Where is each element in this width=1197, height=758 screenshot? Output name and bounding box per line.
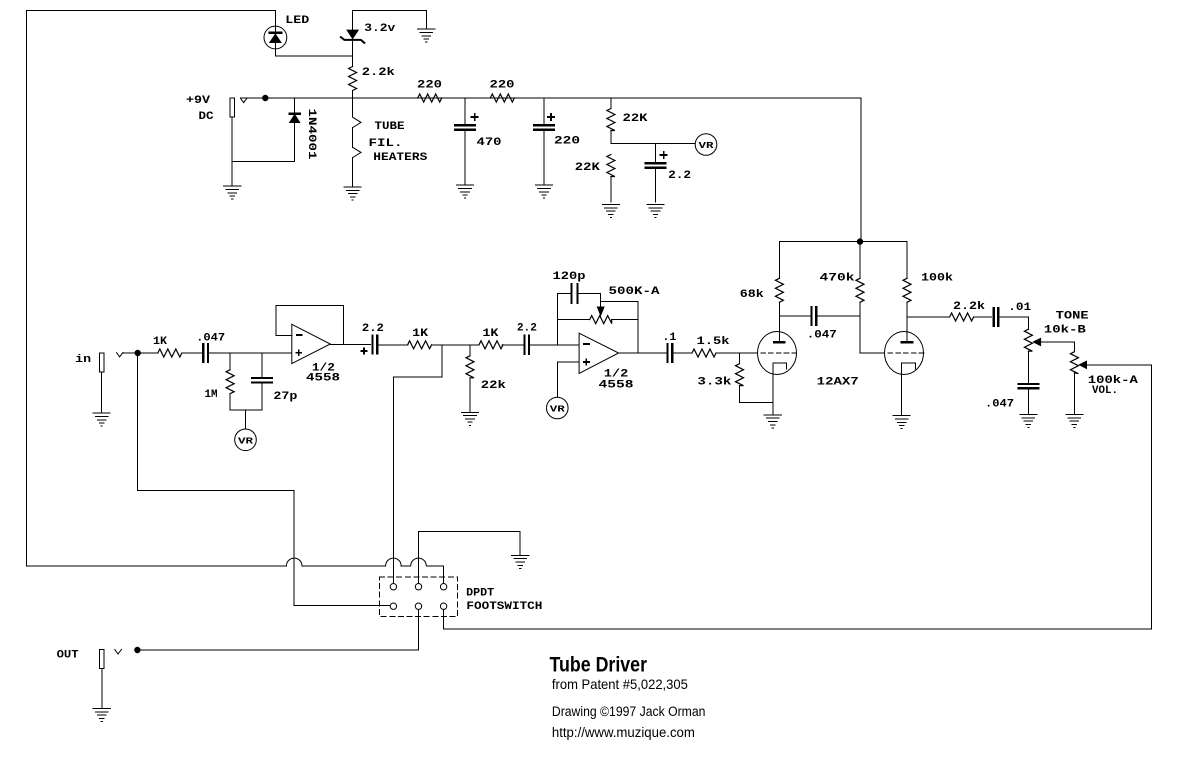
svg-text:2.2: 2.2 — [517, 323, 537, 335]
ground cathode2 — [893, 416, 910, 429]
svg-text:.1: .1 — [662, 332, 676, 344]
svg-text:120p: 120p — [553, 271, 586, 283]
wire cap to 1K — [377, 344, 408, 346]
wire output bottom run — [444, 628, 1152, 630]
LED indicator — [264, 26, 287, 49]
resistor 1.5k grid stopper — [692, 349, 716, 357]
svg-text:.047: .047 — [807, 330, 837, 342]
wire 1K to node — [432, 344, 479, 346]
wire tone bottom to cap — [1027, 351, 1029, 384]
switch pin 3 — [440, 584, 446, 590]
pot VOL wiper arrow — [1079, 361, 1086, 368]
resistor 22K lower divider — [607, 155, 615, 177]
wire top-left bypass rail corner — [27, 10, 276, 12]
svg-text:220: 220 — [417, 80, 442, 92]
wire 2.2k to rail — [352, 91, 354, 99]
capacitor 27p — [261, 353, 263, 378]
svg-text:1M: 1M — [205, 389, 218, 401]
pot TONE wiper arrow — [1033, 338, 1040, 345]
node input junction — [135, 350, 140, 355]
switch pin 4 — [390, 603, 396, 609]
capacitor 2.2 VR filter — [655, 144, 657, 164]
svg-text:.01: .01 — [1008, 302, 1031, 314]
resistor 68k plate1 — [778, 242, 780, 279]
op-amp U1A 1/2 4558 — [292, 324, 331, 363]
wire input to switch — [138, 353, 390, 606]
pot VOL 100k-A body — [1070, 352, 1078, 374]
svg-text:12AX7: 12AX7 — [817, 377, 859, 389]
wire grid2 — [860, 352, 885, 354]
svg-text:HEATERS: HEATERS — [373, 152, 427, 164]
resistor 470k grid leak — [859, 242, 861, 279]
node power input junction — [263, 95, 268, 100]
ground cap 2.2 — [647, 205, 664, 218]
wire 1M 27p bottom — [230, 409, 262, 411]
op-amp U1B 1/2 4558 — [579, 333, 619, 373]
capacitor 2.2 interstage — [372, 336, 374, 354]
wire rail to plate supply — [860, 98, 862, 242]
resistor 1K stage2 a — [408, 341, 432, 349]
switch pin 2 — [415, 584, 421, 590]
label + 2.2 — [661, 152, 667, 158]
svg-text:1K: 1K — [153, 336, 167, 348]
svg-text:27p: 27p — [273, 391, 297, 403]
resistor 1K input — [158, 349, 182, 357]
wire output down right side — [1150, 365, 1152, 629]
svg-text:.047: .047 — [196, 332, 225, 344]
svg-text:FIL.: FIL. — [369, 138, 403, 150]
wire opamp1 feedback loop — [276, 305, 343, 344]
svg-text:2.2k: 2.2k — [953, 301, 985, 313]
label + 2.2 interstage — [361, 348, 367, 354]
wire 1K to cap2.2 — [502, 344, 524, 346]
wire input line — [123, 352, 158, 354]
wire pot right leg to output — [637, 301, 639, 353]
ground 22K divider — [602, 205, 619, 218]
svg-text:VOL.: VOL. — [1092, 385, 1118, 397]
label + 220 — [548, 114, 554, 120]
ground top-right — [425, 11, 427, 30]
resistor 1M bias — [229, 353, 231, 370]
ground 22k shunt — [461, 412, 478, 425]
pot TONE 10k-B body — [1024, 329, 1032, 351]
svg-text:22K: 22K — [623, 113, 648, 125]
svg-text:http://www.muzique.com: http://www.muzique.com — [552, 725, 695, 740]
svg-text:4558: 4558 — [599, 380, 635, 392]
svg-text:3.3k: 3.3k — [697, 377, 732, 389]
wire 2.2k to .01 — [974, 316, 992, 318]
svg-text:in: in — [75, 354, 91, 366]
svg-text:3.2v: 3.2v — [364, 23, 395, 35]
+9V DC power rail — [241, 97, 862, 99]
svg-text:from Patent #5,022,305: from Patent #5,022,305 — [552, 676, 688, 692]
switch pin 5 — [415, 603, 421, 609]
svg-text:VR: VR — [238, 436, 253, 447]
wire VR node — [611, 143, 695, 145]
wire pot left leg — [556, 294, 558, 345]
capacitor .047 input — [202, 344, 204, 362]
zener diode D1 3.2v — [352, 11, 354, 31]
svg-text:1N4001: 1N4001 — [305, 109, 317, 161]
wire 3.3k to cathode — [740, 401, 773, 403]
switch pin 1 — [390, 584, 396, 590]
resistor 22k shunt — [469, 345, 471, 356]
svg-text:68k: 68k — [740, 289, 764, 301]
wire plate2 output tap — [907, 316, 950, 318]
ground vol pot — [1066, 415, 1083, 428]
resistor 3.3k cathode — [739, 353, 741, 364]
svg-text:10k-B: 10k-B — [1044, 325, 1086, 337]
capacitor 470 filter — [464, 98, 466, 125]
svg-text:DPDT: DPDT — [466, 588, 494, 600]
node output junction — [135, 647, 140, 652]
svg-text:2.2k: 2.2k — [362, 67, 395, 79]
wire switch send vertical — [392, 377, 394, 583]
rail plate supply — [779, 241, 907, 243]
node feedback tap — [556, 294, 558, 345]
svg-text:Drawing ©1997 Jack Orman: Drawing ©1997 Jack Orman — [552, 704, 706, 719]
triode V1A 12AX7 — [758, 332, 797, 375]
switch DPDT box — [380, 577, 458, 617]
resistor 100k plate2 — [906, 242, 908, 279]
wire 120p to wiper — [601, 294, 638, 302]
svg-text:TUBE: TUBE — [375, 121, 405, 133]
diode 1N4001 — [294, 98, 296, 113]
wire zener top rail — [353, 10, 427, 12]
svg-text:LED: LED — [285, 15, 309, 27]
pot 500K-A body — [557, 319, 589, 321]
wire pin5 to output jack — [137, 609, 418, 650]
svg-text:22k: 22k — [481, 380, 506, 392]
ground cathode1 — [764, 415, 781, 428]
svg-text:22K: 22K — [575, 162, 600, 174]
resistor 2.2k LED dropper — [349, 67, 357, 91]
svg-text:OUT: OUT — [57, 650, 79, 662]
wire stub to VR1 — [245, 410, 247, 429]
triode V1B 12AX7 — [885, 332, 924, 375]
capacitor 2.2 stage2 — [523, 336, 525, 354]
svg-text:Tube Driver: Tube Driver — [550, 652, 648, 676]
label + 470 — [472, 114, 478, 120]
wire pin6 to output run — [443, 609, 445, 629]
capacitor .047 tone — [1018, 383, 1038, 385]
svg-text:500K-A: 500K-A — [609, 286, 661, 298]
ground input jack — [93, 413, 110, 426]
resistor 22K upper divider — [610, 98, 612, 109]
svg-text:.047: .047 — [985, 398, 1014, 410]
capacitor .047 interstage tube — [779, 315, 811, 317]
wire cap.1 to 1.5k — [673, 352, 692, 354]
svg-text:2.2: 2.2 — [362, 323, 384, 335]
node VR1 bias — [235, 429, 257, 451]
jack input — [100, 353, 104, 372]
svg-text:4558: 4558 — [306, 373, 341, 385]
svg-text:DC: DC — [199, 111, 214, 123]
wire opamp2 output — [619, 352, 667, 354]
svg-text:VR: VR — [699, 140, 714, 151]
svg-text:220: 220 — [554, 136, 580, 148]
jack output — [100, 650, 104, 669]
wire 1.5k to grid — [716, 352, 758, 354]
wire 1N4001 anode to jack sleeve — [232, 160, 295, 162]
switch pin 6 — [440, 603, 446, 609]
wire ground to switch pin2 — [419, 532, 521, 584]
svg-text:470k: 470k — [820, 273, 856, 285]
svg-text:470: 470 — [477, 137, 502, 149]
ground cap 470 — [456, 185, 473, 198]
svg-text:100k: 100k — [921, 272, 953, 284]
capacitor 220 filter — [543, 98, 545, 125]
wire cathode1 to ground — [772, 402, 774, 414]
wire .01 to tone — [999, 317, 1029, 329]
node switch send — [441, 345, 443, 377]
wire opamp1 output — [330, 344, 370, 346]
svg-text:TONE: TONE — [1056, 311, 1089, 323]
ground cap 220 — [535, 185, 552, 198]
wire opamp2 plus input — [557, 362, 579, 397]
pot 500K-A wiper arrow — [600, 301, 602, 307]
ground output jack — [93, 709, 110, 722]
wire tone wiper to vol top — [1073, 342, 1075, 352]
ground switch — [512, 555, 529, 568]
resistor 1K stage2 b — [479, 341, 503, 349]
svg-text:1K: 1K — [482, 328, 498, 340]
resistor 220 second — [490, 94, 514, 102]
svg-text:FOOTSWITCH: FOOTSWITCH — [466, 601, 542, 613]
capacitor .01 output — [993, 308, 995, 326]
svg-text:2.2: 2.2 — [668, 170, 691, 182]
wire cap to opamp1 — [208, 352, 292, 354]
node VR supply — [695, 134, 717, 156]
resistor 220 first — [418, 94, 442, 102]
svg-text:1.5k: 1.5k — [697, 336, 730, 348]
wire 1K to cap — [182, 352, 204, 354]
wire cap to opamp2 minus — [529, 344, 579, 346]
capacitor .1 coupling — [666, 344, 668, 362]
resistor 2.2k output — [950, 313, 974, 321]
ground heaters — [344, 187, 361, 200]
wire bypass long horizontal with hops — [27, 566, 444, 584]
node plate supply junction — [857, 239, 862, 244]
svg-text:VR: VR — [550, 404, 565, 415]
svg-text:+9V: +9V — [186, 95, 210, 107]
tube filament heaters element — [352, 98, 354, 117]
jack +9V DC input — [230, 98, 234, 117]
node VR2 bias — [547, 397, 569, 419]
capacitor 120p feedback — [557, 293, 571, 295]
ground power jack sleeve — [231, 161, 233, 186]
ground tone cap — [1020, 415, 1037, 428]
svg-text:1K: 1K — [412, 328, 428, 340]
wire LED cathode to zener — [275, 55, 352, 57]
svg-text:220: 220 — [490, 80, 515, 92]
